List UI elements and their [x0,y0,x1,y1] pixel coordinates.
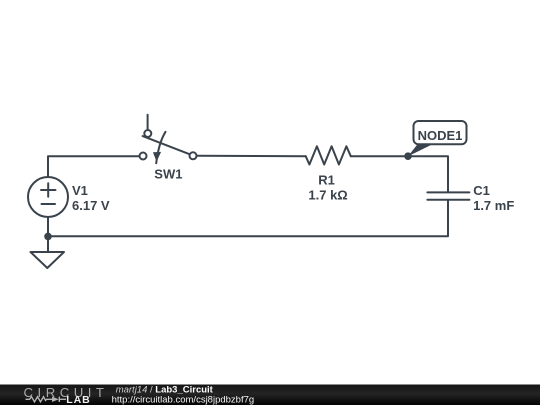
ground stub wire [47,236,49,252]
svg-text:V1: V1 [72,183,88,198]
value 1.7 kOhm [308,187,347,202]
switch SW1 [140,130,197,163]
svg-text:LAB: LAB [66,394,91,405]
footer author and title [116,385,214,396]
label NODE1 [418,128,463,143]
wire C1 bottom to bottom rail to V1 [48,200,448,236]
label SW1 [154,167,182,182]
value 1.7 mF [473,198,514,213]
svg-text:NODE1: NODE1 [418,128,463,143]
label V1 [72,183,88,198]
logo CIRCUIT text [24,385,109,400]
svg-text:1.7 kΩ: 1.7 kΩ [308,187,347,202]
value 6.17 V [72,198,110,213]
wire R1 to capacitor corner [351,156,448,192]
svg-text:http://circuitlab.com/csj8jpdb: http://circuitlab.com/csj8jpdbzbf7g [112,395,255,405]
label C1 [473,183,490,198]
wire SW1 to R1 [197,155,306,157]
wire top rail from V1 to SW1 [48,156,139,177]
label R1 [318,172,335,187]
voltage source V1 [28,177,68,217]
node NODE1 flag [408,121,467,156]
ground [31,252,65,268]
node junction dot at NODE1 [404,152,412,160]
footer bar [0,385,540,405]
svg-text:SW1: SW1 [154,167,182,182]
svg-text:C1: C1 [473,183,490,198]
logo mini resistor and diode glyph [26,397,67,402]
svg-text:1.7 mF: 1.7 mF [473,198,514,213]
footer url [112,395,255,405]
capacitor C1 [427,192,469,199]
wire SW1 top throw stub [147,115,149,130]
logo LAB text [66,394,91,405]
svg-text:6.17 V: 6.17 V [72,198,110,213]
resistor R1 [306,146,351,164]
node junction dot at ground [44,233,52,241]
svg-text:R1: R1 [318,172,335,187]
